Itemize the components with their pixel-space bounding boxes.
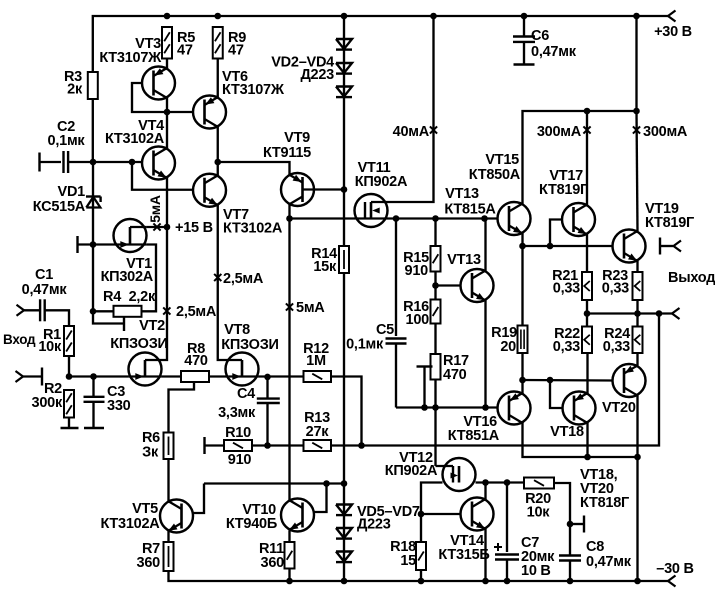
wire input to C1 bbox=[24, 309, 40, 311]
wire diode chain to VT9 base node bbox=[343, 97, 345, 190]
resistor R1 bbox=[64, 326, 74, 356]
wire VT17 base bbox=[550, 220, 562, 247]
svg-text:КТ819Г: КТ819Г bbox=[539, 182, 588, 198]
capacitor C6 bbox=[523, 16, 525, 37]
svg-text:КТ3102А: КТ3102А bbox=[105, 131, 165, 147]
transistor VT8 (JFET KP303I) bbox=[226, 353, 259, 386]
wire VT20 base wire bbox=[523, 379, 613, 382]
node R20/C8 bbox=[567, 521, 574, 528]
node terminal/bias bbox=[421, 404, 428, 411]
wire VT5 base bbox=[193, 484, 204, 514]
junction dots on top rail bbox=[164, 13, 171, 20]
svg-text:VT9: VT9 bbox=[284, 130, 310, 146]
svg-text:2,5мА: 2,5мА bbox=[223, 271, 264, 287]
wire R14 down to base rail bbox=[343, 273, 345, 446]
svg-text:КТ315Б: КТ315Б bbox=[438, 547, 489, 563]
wire R15 to node bbox=[434, 219, 436, 247]
transistor VT18 (KT818G) bbox=[563, 392, 596, 425]
svg-text:КТ851А: КТ851А bbox=[448, 428, 500, 444]
wire VT13 emitter bbox=[484, 301, 486, 408]
wire VT2 source to R8 bbox=[161, 375, 181, 377]
wire collector node to VT9 emitter bbox=[218, 162, 290, 175]
svg-text:0,33: 0,33 bbox=[553, 281, 580, 297]
svg-text:VT2: VT2 bbox=[139, 318, 165, 334]
svg-text:КПЗОЗИ: КПЗОЗИ bbox=[221, 337, 278, 353]
svg-text:КП302А: КП302А bbox=[101, 269, 154, 285]
node VT9 base / R14 bbox=[341, 186, 348, 193]
node R12/FB bbox=[358, 442, 365, 449]
node VT18 base drop bbox=[547, 377, 554, 384]
svg-text:47: 47 bbox=[177, 43, 193, 59]
node C2/R3 bbox=[90, 159, 97, 166]
wire VT18 base bbox=[550, 380, 563, 408]
svg-text:VT5: VT5 bbox=[132, 501, 158, 517]
wire VT20 emitter to R24 bbox=[636, 353, 638, 366]
wire VT9 base to diode column bbox=[303, 188, 345, 190]
transistor VT20 (KT818G) bbox=[613, 364, 646, 397]
resistor R2 bbox=[64, 390, 74, 418]
svg-text:15к: 15к bbox=[313, 259, 337, 275]
wire VT15 emitter bbox=[521, 234, 523, 247]
wire +30V top rail bbox=[93, 16, 668, 162]
svg-text:910: 910 bbox=[405, 263, 429, 279]
wire VT10 collector up to VT9 bbox=[288, 219, 290, 501]
svg-text:VT13: VT13 bbox=[447, 252, 481, 268]
svg-text:0,1мк: 0,1мк bbox=[346, 337, 384, 353]
wire VT12 gate bbox=[434, 408, 436, 467]
wire 300mA rail bbox=[587, 110, 637, 112]
resistor R16 bbox=[431, 300, 441, 324]
svg-text:КТ850А: КТ850А bbox=[469, 167, 521, 183]
node VT17 base drop bbox=[547, 243, 554, 250]
node collector rail bbox=[634, 454, 641, 461]
wire terminal to R10 bbox=[205, 444, 224, 446]
svg-text:0,33: 0,33 bbox=[602, 281, 629, 297]
svg-text:360: 360 bbox=[261, 555, 285, 571]
resistor R22 bbox=[582, 327, 592, 354]
svg-text:Вход: Вход bbox=[3, 332, 36, 347]
stub to terminal near VT2 bbox=[93, 311, 123, 323]
svg-text:100: 100 bbox=[406, 312, 430, 328]
wire top rail to diode chain bbox=[343, 16, 345, 97]
wire C2 to VT4 base bbox=[68, 161, 142, 163]
svg-text:10 В: 10 В bbox=[521, 563, 551, 579]
svg-text:470: 470 bbox=[443, 367, 467, 383]
terminal R10 left bbox=[203, 437, 205, 454]
node VT13 collector bbox=[481, 215, 488, 222]
transistor VT4 (KT3102A) bbox=[142, 147, 175, 180]
node C4 bottom bbox=[264, 442, 271, 449]
svg-text:Зк: Зк bbox=[142, 445, 159, 461]
svg-text:40мА: 40мА bbox=[393, 124, 430, 140]
svg-text:2,5мА: 2,5мА bbox=[176, 304, 217, 320]
wire VT13 base bbox=[436, 284, 461, 286]
node C7 top bbox=[504, 479, 511, 486]
svg-text:КТ3107Ж: КТ3107Ж bbox=[222, 82, 285, 98]
current mark 40mA bbox=[430, 126, 437, 133]
resistor R14 bbox=[339, 246, 349, 273]
wire VT2 drain up to +15 node bbox=[145, 227, 167, 360]
wire VT18 emitter to R22 bbox=[586, 353, 588, 393]
wire VT6 collector to node bbox=[217, 127, 219, 163]
wire VT3 base loop bbox=[132, 83, 167, 112]
wire VT12 source bbox=[421, 483, 443, 515]
feedback wire to output bbox=[331, 314, 659, 446]
wire VT8 drain up to VT7 emitter bbox=[218, 205, 242, 360]
svg-text:5мА: 5мА bbox=[147, 195, 163, 223]
wire VT19 collector bbox=[637, 111, 638, 231]
resistor R21 bbox=[582, 272, 592, 300]
wire VT9 collector down bbox=[288, 204, 290, 219]
svg-text:47: 47 bbox=[228, 43, 244, 59]
svg-text:С6: С6 bbox=[531, 28, 549, 44]
svg-text:КТ3102А: КТ3102А bbox=[100, 516, 160, 532]
resistor R13 bbox=[304, 440, 332, 451]
wire R23 to output rail bbox=[636, 300, 638, 314]
transistor VT14 (KT315B) bbox=[461, 498, 494, 531]
wire R10 to R13 bbox=[252, 444, 304, 446]
node 300mA left bbox=[584, 108, 591, 115]
diode VD6 bbox=[336, 528, 352, 538]
wire R4 to gate node bbox=[93, 310, 114, 312]
svg-text:360: 360 bbox=[137, 555, 161, 571]
svg-text:VT13: VT13 bbox=[445, 186, 479, 202]
current mark 5mA on VAS bbox=[286, 303, 293, 310]
wire R16 to R17 bbox=[434, 324, 436, 355]
node +15V bbox=[164, 224, 171, 231]
svg-text:КП902А: КП902А bbox=[385, 463, 438, 479]
wire VT4 emitter bbox=[166, 178, 168, 228]
svg-text:0,33: 0,33 bbox=[553, 339, 580, 355]
ground bar R2 bbox=[68, 418, 70, 429]
resistor R5 bbox=[162, 27, 172, 59]
capacitor C4 bbox=[266, 377, 268, 398]
wire VT16 collector to collector rail bbox=[523, 423, 638, 458]
wire R20 to C8 bbox=[554, 483, 570, 556]
wire VT1 source to R4 bbox=[142, 245, 157, 312]
node VT16 emitter/VT20 base wire bbox=[519, 377, 526, 384]
resistor R24 bbox=[633, 327, 643, 354]
node collector rail bottom bbox=[634, 578, 641, 585]
svg-text:Д223: Д223 bbox=[357, 517, 391, 533]
svg-text:КП902А: КП902А bbox=[355, 174, 408, 190]
wire R21 to output rail bbox=[586, 300, 588, 314]
svg-text:Выход: Выход bbox=[668, 270, 715, 286]
node 300mA right bbox=[633, 108, 640, 115]
transistor VT9 (KT9115) bbox=[281, 173, 314, 206]
svg-text:КПЗОЗИ: КПЗОЗИ bbox=[110, 336, 167, 352]
node VT18 collector bbox=[584, 454, 591, 461]
wire VT18 collector bbox=[586, 423, 588, 457]
terminal output lower bbox=[672, 308, 680, 319]
diode VD2 bbox=[336, 39, 352, 49]
resistor R15 bbox=[431, 246, 441, 272]
wire VT14 base bbox=[421, 513, 461, 515]
diode VD5 bbox=[336, 505, 352, 515]
wire R12 right down to FB line bbox=[331, 377, 362, 446]
resistor R9 bbox=[213, 27, 223, 59]
node C5 top bbox=[393, 215, 400, 222]
wire VT14 collector bbox=[484, 483, 486, 500]
svg-text:VT20: VT20 bbox=[602, 400, 636, 416]
terminal VT1 gate bbox=[76, 236, 78, 253]
transistor VT16 (KT851A) bbox=[498, 392, 531, 425]
wire -30V bottom rail bbox=[169, 571, 669, 581]
wire VT10 base down bbox=[314, 484, 327, 513]
svg-text:R4: R4 bbox=[103, 289, 121, 305]
svg-text:910: 910 bbox=[228, 452, 252, 468]
capacitor C5 bbox=[395, 219, 397, 337]
transistor VT7 (KT3102A) bbox=[193, 174, 226, 207]
svg-text:5мА: 5мА bbox=[296, 300, 325, 316]
wire VT19 emitter to R23 bbox=[636, 261, 638, 272]
svg-text:300мА: 300мА bbox=[537, 124, 582, 140]
svg-text:0,47мк: 0,47мк bbox=[586, 554, 632, 570]
transistor VT15 (KT850A) bbox=[498, 202, 531, 235]
svg-text:КТ3107Ж: КТ3107Ж bbox=[99, 50, 162, 66]
svg-text:Д223: Д223 bbox=[300, 67, 334, 83]
svg-text:КТ818Г: КТ818Г bbox=[580, 495, 629, 511]
resistor R18 bbox=[416, 542, 426, 570]
svg-text:2,2к: 2,2к bbox=[129, 289, 156, 305]
svg-text:VT15: VT15 bbox=[485, 152, 519, 168]
wire top rail drop bbox=[635, 16, 637, 111]
svg-text:КТ819Г: КТ819Г bbox=[645, 215, 694, 231]
svg-text:КС515А: КС515А bbox=[33, 199, 86, 215]
wire VT17 emitter to R21 bbox=[586, 235, 588, 273]
resistor R7 bbox=[164, 542, 174, 571]
capacitor C7 electrolytic bbox=[506, 483, 508, 553]
resistor R23 bbox=[633, 272, 643, 300]
svg-text:0,47мк: 0,47мк bbox=[22, 282, 68, 298]
svg-text:1М: 1М bbox=[306, 353, 326, 369]
svg-text:С1: С1 bbox=[35, 267, 53, 283]
svg-text:VT18: VT18 bbox=[550, 424, 584, 440]
node R15/R16/VT13 base bbox=[432, 282, 439, 289]
transistor VT5 (KT3102A) bbox=[160, 500, 193, 533]
wire VT8 source to node bbox=[258, 375, 303, 377]
node VT13 emitter/bias bbox=[482, 404, 489, 411]
svg-text:R10: R10 bbox=[225, 425, 251, 441]
terminal stub bar bbox=[123, 316, 125, 331]
capacitor C3 bbox=[92, 377, 94, 397]
svg-text:С8: С8 bbox=[586, 539, 604, 555]
wire R5 to VT3 emitter bbox=[166, 59, 168, 69]
node diode chain top bbox=[341, 480, 348, 487]
wire VT9 base node to R14 bbox=[343, 190, 345, 247]
node VT12 source/R18/VT14 base bbox=[418, 511, 425, 518]
node C3 tap bbox=[90, 373, 97, 380]
svg-text:VD1: VD1 bbox=[58, 184, 86, 200]
terminal C2 input bbox=[38, 153, 40, 172]
transistor VT1 (JFET KP302A) bbox=[114, 219, 147, 252]
wire to VT4 collector bbox=[166, 112, 168, 149]
wire VT14 emitter to rail bbox=[484, 529, 486, 581]
wire R11 to rail bbox=[288, 569, 290, 582]
wire VT3 collector bbox=[166, 98, 168, 113]
wire VT20 collector to rail bbox=[636, 396, 638, 582]
wire VT10 emitter to R11 bbox=[288, 531, 290, 543]
svg-text:300мА: 300мА bbox=[643, 124, 688, 140]
node VT3 collector / VT6 base bbox=[164, 109, 171, 116]
svg-text:С4: С4 bbox=[237, 386, 255, 402]
diode VD4 bbox=[336, 87, 352, 97]
wire VT15 emitter node to R19 bbox=[521, 246, 523, 326]
wire R19 to VT16 emitter bbox=[521, 353, 523, 394]
wire VT11 drain bbox=[371, 16, 434, 202]
wire VT4 base drop to VT7 base bbox=[132, 162, 193, 190]
current mark 300mA left bbox=[583, 126, 590, 133]
svg-text:VT8: VT8 bbox=[224, 322, 250, 338]
node diode chain rail bbox=[341, 578, 348, 585]
resistor R12 bbox=[304, 371, 332, 382]
wire VT15 collector bbox=[523, 111, 588, 204]
terminal input C1 bbox=[17, 305, 25, 316]
wire R18 leads bbox=[420, 514, 422, 542]
wire R17 to bias node bbox=[434, 380, 436, 408]
transistor VT12 (KP902A) bbox=[443, 458, 476, 491]
transistor VT3 (KT3107Zh) bbox=[142, 67, 175, 100]
svg-text:3,3мк: 3,3мк bbox=[218, 405, 256, 421]
node VAS out bbox=[286, 215, 293, 222]
diode VD7 bbox=[336, 552, 352, 562]
wire R3 node down to VD1 and VT1 gate bbox=[92, 162, 94, 245]
transistor VT13 (KT815A) bbox=[461, 269, 494, 302]
wire input to VT2 gate bbox=[69, 375, 129, 377]
svg-text:20: 20 bbox=[500, 339, 516, 355]
wire to C2 bbox=[40, 161, 61, 163]
terminal output upper bbox=[659, 238, 661, 255]
transistor VT2 (JFET KP303I) bbox=[129, 353, 162, 386]
output rail bbox=[587, 312, 672, 314]
node VT10 base bbox=[323, 480, 330, 487]
transistor VT19 (KT819G) bbox=[613, 230, 646, 263]
svg-text:300к: 300к bbox=[32, 395, 63, 411]
capacitor C8 bbox=[559, 554, 581, 556]
wire C1 to R1 bbox=[45, 310, 69, 326]
wire VT13 collector bbox=[484, 219, 486, 271]
wire VT15 emitter to VT19 base bbox=[523, 245, 613, 247]
svg-text:27к: 27к bbox=[306, 424, 330, 440]
node VT6/VT7 collectors bbox=[214, 159, 221, 166]
wire input node bbox=[68, 356, 70, 377]
svg-text:0,1мк: 0,1мк bbox=[48, 133, 86, 149]
node VT15 emitter bbox=[519, 243, 526, 250]
svg-text:470: 470 bbox=[184, 353, 208, 369]
svg-text:10к: 10к bbox=[38, 339, 62, 355]
wire diode chain bbox=[343, 446, 345, 582]
resistor R11 bbox=[285, 542, 295, 569]
node VT14 collector bbox=[482, 479, 489, 486]
svg-text:0,47мк: 0,47мк bbox=[531, 44, 577, 60]
node R4 / VT1 gate bbox=[90, 308, 97, 315]
capacitor C2 bbox=[62, 151, 64, 173]
current mark 5mA on VT1 drain bbox=[153, 223, 160, 230]
current mark 300mA right bbox=[633, 126, 640, 133]
svg-text:+15 В: +15 В bbox=[175, 220, 213, 236]
svg-text:–30 В: –30 В bbox=[656, 561, 693, 577]
node R17/bias bbox=[432, 404, 439, 411]
resistor R3 bbox=[88, 72, 98, 99]
node C4 bbox=[264, 374, 271, 381]
wire R8 to VT8 gate bbox=[209, 375, 229, 377]
current mark 2,5mA on VT7 emitter bbox=[214, 274, 221, 281]
diode VD3 bbox=[336, 63, 352, 73]
resistor R17 bbox=[431, 354, 441, 380]
resistor R19 bbox=[518, 326, 528, 354]
current mark 2,5mA near VT2 bbox=[163, 307, 170, 314]
terminal input 2 bbox=[16, 371, 24, 382]
svg-text:2к: 2к bbox=[67, 82, 83, 98]
node VT1 gate bbox=[90, 241, 97, 248]
transistor VT10 (KT940B) bbox=[281, 499, 314, 532]
wire base rail VT5-VT10-diodes bbox=[204, 482, 344, 484]
terminal +30V bbox=[668, 11, 676, 22]
transistor VT6 (KT3107Zh) bbox=[193, 96, 226, 129]
wire R6 to VT5 collector bbox=[167, 459, 169, 502]
svg-text:330: 330 bbox=[107, 398, 131, 414]
plus sign C7 bbox=[494, 546, 502, 548]
node R11 rail bbox=[286, 578, 293, 585]
wire VT7 collector bbox=[217, 162, 219, 176]
svg-text:+30 В: +30 В bbox=[654, 24, 692, 40]
svg-text:0,33: 0,33 bbox=[603, 339, 630, 355]
svg-text:КТ815А: КТ815А bbox=[444, 202, 496, 218]
wire VT5 emitter to R7 bbox=[167, 531, 169, 543]
svg-text:КТ9115: КТ9115 bbox=[263, 145, 311, 161]
wire gate terminal to VT1 bbox=[78, 243, 114, 245]
svg-text:10к: 10к bbox=[527, 505, 551, 521]
wire R9 to VT6 emitter bbox=[217, 59, 219, 98]
wire R24 top bbox=[636, 314, 638, 327]
zener diode VD1 bbox=[86, 197, 100, 208]
terminal -30V bbox=[668, 576, 676, 587]
terminal near C8 bbox=[570, 523, 583, 525]
terminal near R17 bbox=[417, 365, 433, 367]
wire R8 tap to R6 bbox=[169, 382, 195, 433]
wire VT6 base bbox=[167, 111, 193, 113]
node VT4 base / VT7 base bbox=[129, 159, 136, 166]
transistor VT17 (KT819G) bbox=[562, 203, 595, 236]
transistor VT11 (KP902A) current source bbox=[355, 194, 388, 227]
svg-text:КТ3102А: КТ3102А bbox=[223, 221, 283, 237]
svg-text:КТ940Б: КТ940Б bbox=[226, 516, 277, 532]
wire VT1 drain bbox=[130, 226, 146, 228]
resistor R20 bbox=[524, 478, 554, 489]
wire VAS node to VT15 base bbox=[290, 217, 498, 219]
wire R22 top bbox=[586, 314, 588, 327]
resistor R4 bbox=[114, 306, 142, 317]
svg-text:15: 15 bbox=[400, 553, 416, 569]
node R1/R2 input bbox=[66, 373, 73, 380]
wire VT12 drain to R20 bbox=[476, 481, 525, 483]
resistor R10 bbox=[224, 440, 252, 451]
capacitor C1 bbox=[39, 299, 41, 321]
resistor R6 bbox=[164, 433, 174, 460]
wire VT17 collector bbox=[586, 111, 588, 205]
wire C5 to bias node bbox=[396, 406, 498, 408]
resistor R8 bbox=[181, 371, 209, 382]
node R15 top bbox=[432, 215, 439, 222]
